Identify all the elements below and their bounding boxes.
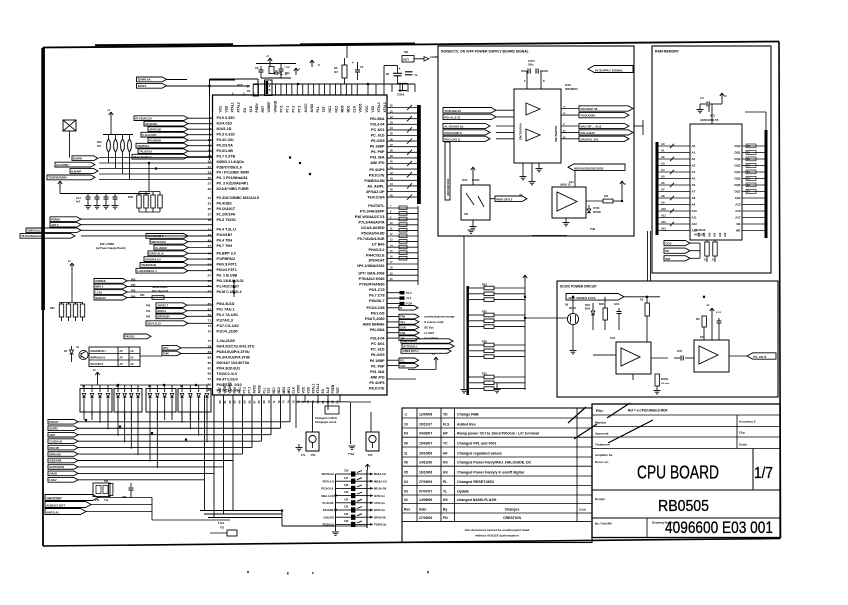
svg-text:DQ0: DQ0 [735, 144, 741, 148]
svg-text:P40: P40 [146, 304, 151, 307]
svg-text:P6.BPP 3.3: P6.BPP 3.3 [217, 252, 236, 256]
svg-text:BT/J: BT/J [163, 347, 169, 350]
svg-text:P6./4G5: P6./4G5 [371, 139, 385, 143]
svg-text:A11: A11 [692, 216, 698, 220]
svg-text:WE: WE [736, 229, 741, 233]
svg-text:VAREF: VAREF [267, 102, 271, 113]
svg-text:68: 68 [257, 400, 261, 404]
svg-text:Changed regulated values: Changed regulated values [457, 451, 502, 455]
svg-text:/3AVR2: /3AVR2 [49, 427, 58, 430]
svg-text:P0/4.3/20.6U1: P0/4.3/20.6U1 [217, 366, 241, 370]
svg-text:E/S's PWM: E/S's PWM [100, 242, 115, 246]
svg-text:B./DAVP: B./DAVP [71, 170, 81, 173]
svg-text:Scale: Scale [739, 443, 747, 447]
svg-text:K6//4A7 /2/4.80T3U: K6//4A7 /2/4.80T3U [217, 361, 250, 365]
svg-text:A11: A11 [661, 214, 666, 218]
pin box 21 [265, 80, 273, 96]
svg-text:R/36: R/36 [599, 304, 605, 306]
svg-text:BIPPAJUA 9: BIPPAJUA 9 [91, 357, 106, 360]
svg-text:AD/3: AD/3 [49, 434, 55, 437]
svg-text:PE709-CH: PE709-CH [322, 472, 335, 476]
svg-text:T6/4.C/3/4: T6/4.C/3/4 [367, 195, 385, 199]
svg-text:A/3: A/3 [723, 232, 727, 237]
svg-text:NAVA/J2: NAVA/J2 [95, 296, 106, 300]
svg-text:/3 comms small: /3 comms small [424, 320, 444, 324]
svg-text:P0./2/A01T: P0./2/A01T [217, 207, 236, 211]
svg-text:P3.0 0.35C: P3.0 0.35C [217, 116, 236, 120]
svg-text:F52: F52 [220, 527, 225, 530]
capacitor C9 (RAM) [697, 97, 717, 124]
title text RB0505 [658, 498, 709, 515]
svg-text:DQ5: DQ5 [735, 177, 741, 181]
connector P15 [348, 412, 379, 457]
svg-text:A6N/ B6MA6: A6N/ B6MA6 [363, 323, 385, 327]
svg-text:VAGND: VAGND [228, 382, 232, 394]
svg-text:P6.3/4.0U2P/4.3T80: P6.3/4.0U2P/4.3T80 [217, 356, 250, 360]
svg-text:66: 66 [247, 400, 251, 404]
svg-text:11: 11 [404, 451, 408, 455]
svg-text:F9: F9 [404, 432, 408, 436]
svg-text:A/3: A/3 [707, 232, 711, 237]
svg-text:NC1: NC1 [272, 387, 276, 394]
svg-text:A0: A0 [661, 142, 665, 146]
svg-text:Charge/gm circuit: Charge/gm circuit [315, 421, 336, 424]
svg-text:P1/7A/1.3: P1/7A/1.3 [217, 319, 233, 323]
svg-text:PL/MAOH: PL/MAOH [149, 138, 161, 142]
svg-text:MD0: MD0 [282, 387, 286, 394]
svg-text:A76C-Cu: A76C-Cu [374, 501, 385, 505]
svg-text:FN: FN [443, 516, 448, 520]
svg-text:V/32: V/32 [400, 365, 406, 368]
svg-text:27: 27 [208, 181, 212, 185]
svg-text:W/3: W/3 [665, 257, 670, 261]
svg-text:P6L/36A: P6L/36A [370, 328, 385, 332]
svg-text:AVSS: AVSS [310, 103, 314, 113]
svg-text:A/3M/3 BY/3 1: A/3M/3 BY/3 1 [402, 350, 419, 353]
svg-text:P6.2/3.5A: P6.2/3.5A [217, 143, 234, 147]
svg-text:1/C4/4.A03ED: 1/C4/4.A03ED [361, 226, 385, 230]
svg-text:I6/4/1.1D: I6/4/1.1D [217, 127, 232, 131]
svg-text:A2: A2 [692, 157, 696, 161]
svg-text:12/04/08: 12/04/08 [419, 412, 432, 416]
U1 left pin numbers [208, 116, 212, 392]
capacitor bank C14-C17 [58, 181, 150, 209]
signal flags out of IC40 (right) [561, 106, 643, 142]
svg-text:TC/3UAB 30: TC/3UAB 30 [444, 109, 461, 113]
svg-text:Ramp power Ctrl to 10ms/700ohm: Ramp power Ctrl to 10ms/700ohm - L/C ter… [457, 432, 539, 436]
svg-text:A13: A13 [692, 229, 698, 233]
signal flag 5V SUPPLY SIGNAL [588, 66, 633, 73]
signal flags CONSOLE group [94, 279, 234, 301]
svg-text:P6/J013: P6/J013 [125, 336, 135, 339]
svg-text:P3L3-04: P3L3-04 [370, 123, 385, 127]
svg-text:A/3: A/3 [713, 232, 717, 237]
svg-text:VAGND: VAGND [273, 100, 277, 112]
svg-text:2AP/3U.7: 2AP/3U.7 [157, 304, 168, 307]
svg-text:VSS: VSS [371, 105, 375, 112]
MOSFET T20 [565, 297, 579, 354]
svg-text:BA/3UEL: BA/3UEL [323, 508, 335, 512]
svg-text:Changed Power Fan/y/y K on/off: Changed Power Fan/y/y K on/off digital [457, 470, 524, 474]
optocoupler IC44 [461, 167, 490, 230]
svg-text:K6B/3.1 L4UjOs: K6B/3.1 L4UjOs [217, 160, 244, 164]
svg-text:31: 31 [208, 196, 212, 200]
diode D3 [587, 205, 601, 214]
signal flags BT pair [140, 346, 213, 356]
svg-text:K6/4.0/2C7/2.0/41.3TU: K6/4.0/2C7/2.0/41.3TU [217, 345, 255, 349]
svg-text:ME.6A-O8: ME.6A-O8 [374, 487, 387, 491]
svg-text:P76/4AU/ K086: P76/4AU/ K086 [359, 277, 385, 281]
svg-text:P3/1C/7E: P3/1C/7E [369, 174, 385, 178]
svg-text:changed NAND-FLASH: changed NAND-FLASH [457, 498, 497, 502]
svg-text:A: A [624, 183, 626, 186]
subcircuit box: DC/DC power monitor [557, 281, 778, 397]
svg-text:PLL: PLL [316, 106, 320, 112]
svg-text:A2: A2 [661, 155, 665, 159]
svg-text:03: 03 [404, 489, 408, 493]
svg-text:Design: Design [595, 497, 605, 501]
svg-text:/3AV6.2: /3AV6.2 [157, 310, 166, 313]
svg-text:R3: R3 [334, 66, 338, 70]
svg-text:THE: THE [590, 227, 595, 231]
svg-text:LOA/2: LOA/2 [49, 479, 57, 482]
scan artifacts below frame [247, 571, 429, 575]
svg-text:P0 / FC1/3BC M3M: P0 / FC1/3BC M3M [217, 171, 249, 175]
svg-text:4096600 E03 001: 4096600 E03 001 [665, 519, 773, 537]
svg-text:PC. 61D: PC. 61D [371, 134, 385, 138]
svg-text:P76U/P/4AN30: P76U/P/4AN30 [359, 283, 384, 287]
svg-text:A6: A6 [692, 183, 696, 187]
svg-text:P/CA/3-UL: P/CA/3-UL [321, 487, 334, 491]
svg-text:P1/PBPA/2: P1/PBPA/2 [217, 257, 236, 261]
svg-text:T1A1: T1A1 [218, 522, 225, 525]
svg-text:Ref = a CPU/104abcb MDF: Ref = a CPU/104abcb MDF [628, 409, 668, 413]
svg-text:F1.2/X/1PA: F1.2/X/1PA [217, 213, 236, 217]
signal flag +BAT UNREG [566, 294, 660, 301]
svg-text:A10: A10 [661, 207, 666, 211]
svg-text:1C/3: 1C/3 [610, 337, 616, 340]
svg-text:MD0: MD0 [340, 105, 344, 112]
svg-text:35: 35 [208, 207, 212, 211]
svg-text:P6 16BP: P6 16BP [370, 144, 385, 148]
svg-text:P6.7.C78: P6.7.C78 [369, 294, 384, 298]
subcircuit box: ON/OFF power supply board signals [438, 46, 634, 236]
svg-text:MOV 2: MOV 2 [95, 285, 104, 289]
svg-text:41: 41 [208, 228, 212, 232]
svg-text:P1/7.C/1.U32: P1/7.C/1.U32 [217, 324, 239, 328]
svg-text:77: 77 [208, 339, 212, 343]
svg-text:LCAV: LCAV [95, 290, 102, 294]
svg-text:CE2: CE2 [735, 196, 741, 200]
svg-text:60: 60 [218, 400, 222, 404]
diode array B3 [146, 385, 176, 420]
power arrow +5V (top) [266, 54, 272, 66]
svg-text:DQ1: DQ1 [735, 151, 741, 155]
svg-text:P3/1C/7E: P3/1C/7E [369, 386, 385, 390]
svg-text:KK: KK [443, 498, 448, 502]
svg-text:PL/3AU/L: PL/3AU/L [322, 501, 334, 505]
svg-text:P6 16BP: P6 16BP [370, 359, 385, 363]
resistors R12 R13 (RAM pullups) [704, 240, 717, 262]
svg-text:/3P/3AUB: /3P/3AUB [374, 515, 386, 519]
svg-text:OPA/AUB: OPA/AUB [49, 453, 61, 456]
svg-text:Cont: Cont [579, 507, 586, 511]
svg-text:75: 75 [208, 329, 212, 333]
power arrow (box1 right) [620, 181, 626, 188]
svg-text:P7.3: P7.3 [248, 387, 252, 394]
svg-text:/3700-Cu: /3700-Cu [374, 494, 385, 498]
svg-text:A3: A3 [661, 162, 665, 166]
svg-text:P3 3/4C//3NBC M31A/4.5: P3 3/4C//3NBC M31A/4.5 [217, 196, 259, 200]
svg-text:T6A/L3AUAU 4: T6A/L3AUAU 4 [133, 155, 152, 159]
svg-text:P7.2: P7.2 [243, 387, 247, 394]
svg-text:POR/AL: POR/AL [51, 218, 61, 221]
svg-text:MB/3A-CH: MB/3A-CH [374, 479, 387, 483]
svg-text:AVD 2: AVD 2 [51, 224, 59, 227]
svg-text:A0: A0 [692, 144, 696, 148]
svg-text:6/BUO/AOH: 6/BUO/AOH [151, 240, 166, 244]
signal flags COM group (right) [387, 314, 455, 340]
svg-text:1/7: 1/7 [754, 465, 773, 482]
connector block K1 (name table) [89, 347, 140, 367]
svg-text:(w/ Power Supply Board): (w/ Power Supply Board) [96, 247, 126, 250]
svg-text:COA/3.2/3P 8: COA/3.2/3P 8 [444, 131, 462, 135]
transistor Q1 [76, 346, 88, 360]
svg-text:Lp codriver: Lp codriver [424, 336, 438, 340]
svg-text:06: 06 [404, 461, 408, 465]
signal flags POR group [20, 217, 213, 238]
svg-text:+V: +V [432, 353, 435, 356]
wire into box3 [525, 317, 567, 319]
svg-text:R44: R44 [604, 195, 609, 198]
svg-text:IC44: IC44 [462, 178, 468, 182]
svg-text:R10: R10 [97, 141, 102, 144]
svg-text:PE/3UA.8: PE/3UA.8 [322, 523, 334, 527]
svg-text:B/3/3A: B/3/3A [661, 378, 668, 381]
svg-text:LM/3A 1/2: LM/3A 1/2 [560, 184, 571, 187]
svg-text:P7L3/4A6A9TA: P7L3/4A6A9TA [359, 221, 385, 225]
svg-text:FCM: FCM [406, 302, 413, 306]
svg-text:C50: C50 [122, 496, 127, 499]
svg-text:TST: TST [267, 387, 271, 393]
svg-text:I RAW: I RAW [430, 55, 438, 59]
capacitor C5 (polarized) [352, 61, 364, 80]
svg-text:C26: C26 [344, 470, 349, 473]
svg-text:91: 91 [208, 377, 212, 381]
svg-text:/3AU OP ... AL/3: /3AU OP ... AL/3 [580, 125, 601, 129]
svg-text:A/3UA23: A/3UA23 [323, 515, 334, 519]
svg-text:EA: EA [243, 107, 247, 112]
svg-text:/3A/3C6A7: /3A/3C6A7 [46, 496, 62, 500]
svg-text:3P/6A2.UP: 3P/6A2.UP [366, 190, 385, 194]
svg-text:C31: C31 [344, 506, 349, 509]
svg-text:P1C/4.,2U30: P1C/4.,2U30 [217, 329, 238, 333]
svg-text:P6.M C.UR2L3: P6.M C.UR2L3 [217, 290, 242, 294]
svg-text:XTAL2: XTAL2 [237, 102, 241, 112]
svg-text:TAL/2A0.8: TAL/2A0.8 [139, 149, 152, 153]
signal flags PS pair [387, 358, 419, 368]
capacitor C3 (polarized) [279, 63, 291, 78]
svg-text:P6/1/4 F3T1: P6/1/4 F3T1 [217, 268, 237, 272]
svg-text:P66: P66 [131, 295, 136, 298]
svg-text:CLK: CLK [353, 105, 357, 112]
svg-text:this document cannot be used/c: this document cannot be used/copy/of lat… [465, 528, 530, 532]
svg-text:70: 70 [267, 400, 271, 404]
svg-text:MEA.4-CH: MEA.4-CH [321, 494, 334, 498]
svg-text:PL: PL [443, 480, 447, 484]
svg-text:BU/OW: BU/OW [73, 158, 82, 161]
svg-text:DQ2: DQ2 [735, 157, 741, 161]
svg-text:P.6/4/1B7: P.6/4/1B7 [217, 233, 233, 237]
svg-text:ALE: ALE [249, 105, 253, 112]
diode array B2 [114, 385, 142, 420]
title text CPU BOARD [637, 462, 719, 483]
svg-text:GAOT/3AUB: GAOT/3AUB [49, 466, 64, 469]
svg-text:05: 05 [404, 470, 408, 474]
svg-text:10: 10 [404, 422, 408, 426]
svg-text:SN75E8555: SN75E8555 [554, 125, 558, 142]
svg-text:AP: AP [120, 363, 124, 366]
diode D34 [585, 303, 595, 330]
svg-text:39: 39 [208, 218, 212, 222]
signal flag MODUL POWER DOWN [568, 164, 625, 187]
svg-text:TAHEO/2AB.: TAHEO/2AB. [141, 263, 157, 267]
power arrow aux [310, 60, 320, 67]
resistor R2 [269, 67, 278, 74]
power arrow 12V (array) [80, 369, 210, 385]
RAM IC3 [690, 114, 742, 241]
svg-text:OE: OE [665, 249, 669, 253]
svg-text:83: 83 [208, 355, 212, 359]
svg-text:VDD5: VDD5 [359, 104, 363, 113]
svg-text:/3AU/3AP 3A: /3AU/3AP 3A [580, 107, 598, 111]
svg-text:TU/3UO/3V: TU/3UO/3V [580, 114, 595, 118]
svg-text:P6.4/1B1: P6.4/1B1 [217, 202, 232, 206]
svg-text:/3A/3UAL 3A1: /3A/3UAL 3A1 [580, 137, 599, 141]
note box (charge circuit) [315, 406, 339, 424]
svg-text:OL/AOH8: OL/AOH8 [155, 246, 167, 250]
signal flags long (right) [401, 339, 454, 354]
svg-text:A7: A7 [692, 190, 696, 194]
svg-text:4k7: 4k7 [334, 71, 339, 74]
svg-text:P6/1.C78: P6/1.C78 [369, 288, 384, 292]
svg-text:FLS: FLS [443, 422, 450, 426]
svg-text:17u: 17u [301, 454, 306, 457]
svg-text:APV/CAB: APV/CAB [149, 127, 161, 131]
svg-text:55: 55 [208, 268, 212, 272]
svg-text:A13: A13 [661, 227, 666, 231]
svg-text:P2B/O7/DE/1.6: P2B/O7/DE/1.6 [217, 165, 242, 169]
svg-text:73: 73 [208, 324, 212, 328]
svg-text:53: 53 [208, 262, 212, 266]
svg-text:LUAU/2AB/UL 4: LUAU/2AB/UL 4 [137, 269, 157, 273]
svg-text:P5.7/AVA/4.6UE: P5.7/AVA/4.6UE [357, 237, 385, 241]
svg-text:VSS: VSS [306, 387, 310, 393]
svg-text:P6. P6P: P6. P6P [371, 365, 385, 369]
svg-text:A17: A17 [735, 216, 741, 220]
resistor R62 [640, 297, 649, 342]
resistor network RN2 [128, 163, 162, 212]
resistor network RN3 [50, 303, 85, 322]
svg-text:TA6/P3A.L: TA6/P3A.L [137, 144, 150, 148]
svg-text:B.: B. [400, 307, 403, 310]
svg-text:/3au/3 MART: /3au/3 MART [402, 340, 417, 343]
svg-text:COA/CAOB 2: COA/CAOB 2 [147, 234, 164, 238]
svg-text:DQ3: DQ3 [735, 164, 741, 168]
svg-text:R21: R21 [404, 51, 409, 54]
svg-text:IC40: IC40 [565, 83, 571, 87]
svg-text:89: 89 [208, 372, 212, 376]
svg-text:TL: TL [443, 489, 447, 493]
svg-text:Changed FPL and 0001: Changed FPL and 0001 [457, 441, 496, 445]
diode D5 [64, 346, 74, 362]
svg-text:A10: A10 [692, 209, 698, 213]
signal flags E/S PCM group [136, 234, 213, 274]
svg-text:SN75240AA: SN75240AA [519, 122, 523, 140]
capacitor array C26-C33 [321, 464, 386, 535]
svg-text:A: A [298, 67, 300, 71]
ground symbols under IC40 [519, 163, 543, 197]
power arrow (X area) [107, 109, 113, 122]
svg-text:UE: UE [131, 351, 135, 353]
jumper component F2 [63, 120, 76, 158]
svg-text:64: 64 [238, 400, 242, 404]
svg-text:P1.3: P1.3 [406, 291, 412, 295]
signal flags DATA group [45, 495, 230, 521]
U1 top pin names (rotated) [218, 100, 387, 112]
resistor network RN1 [97, 122, 133, 180]
svg-text:1P6 2/4MA/2032: 1P6 2/4MA/2032 [357, 264, 385, 268]
svg-text:3/35: 3/35 [700, 337, 705, 339]
title block main [592, 404, 780, 538]
svg-text:P61 36A: P61 36A [370, 370, 385, 374]
svg-text:A6. A6/PL: A6. A6/PL [367, 185, 385, 189]
svg-text:= C3: = C3 [284, 65, 290, 69]
svg-text:P7.1: P7.1 [286, 106, 290, 113]
svg-text:HP: HP [443, 432, 448, 436]
svg-text:CONSUL: CONSUL [95, 279, 106, 283]
svg-text:100n: 100n [528, 64, 534, 67]
svg-text:85: 85 [208, 361, 212, 365]
svg-text:CA/3OA 30: CA/3OA 30 [49, 440, 62, 443]
connector P10 [296, 432, 320, 457]
svg-text:Accuracy 2: Accuracy 2 [739, 420, 756, 424]
svg-text:C28: C28 [344, 484, 349, 487]
svg-text:IC3: IC3 [710, 114, 715, 118]
wire box1 to lower bus [461, 230, 501, 393]
svg-text:P5 AD/AG.2/3: P5 AD/AG.2/3 [135, 116, 152, 120]
svg-text:D/34: D/34 [585, 304, 591, 307]
svg-text:29/15/06: 29/15/06 [419, 451, 432, 455]
svg-text:BYTE/3UA 1: BYTE/3UA 1 [403, 345, 418, 348]
svg-text:2/3 ohm: 2/3 ohm [661, 383, 669, 385]
svg-text:VCC: VCC [365, 105, 369, 113]
svg-text:Changed for OK/m: Changed for OK/m [315, 417, 338, 420]
svg-text:B76C-Cu: B76C-Cu [374, 508, 385, 512]
svg-text:04: 04 [404, 480, 408, 484]
svg-text:09: 09 [404, 441, 408, 445]
subcircuit box: RAM MEMORY [652, 46, 771, 273]
svg-text:A3: A3 [692, 164, 696, 168]
svg-text:P0.3 0.31D: P0.3 0.31D [217, 133, 236, 137]
svg-text:02: 02 [404, 498, 408, 502]
svg-text:Amplifier ba: Amplifier ba [595, 453, 613, 457]
svg-text:P6.3 T3X01: P6.3 T3X01 [217, 218, 236, 222]
svg-text:MO/3UL/3S/3/3OC/3/3O: MO/3UL/3S/3/3OC/3/3O [574, 166, 603, 170]
svg-text:K 1/3: K 1/3 [716, 312, 722, 314]
KEY box [402, 51, 414, 62]
svg-text:Changed RESET-MS3: Changed RESET-MS3 [457, 480, 494, 484]
